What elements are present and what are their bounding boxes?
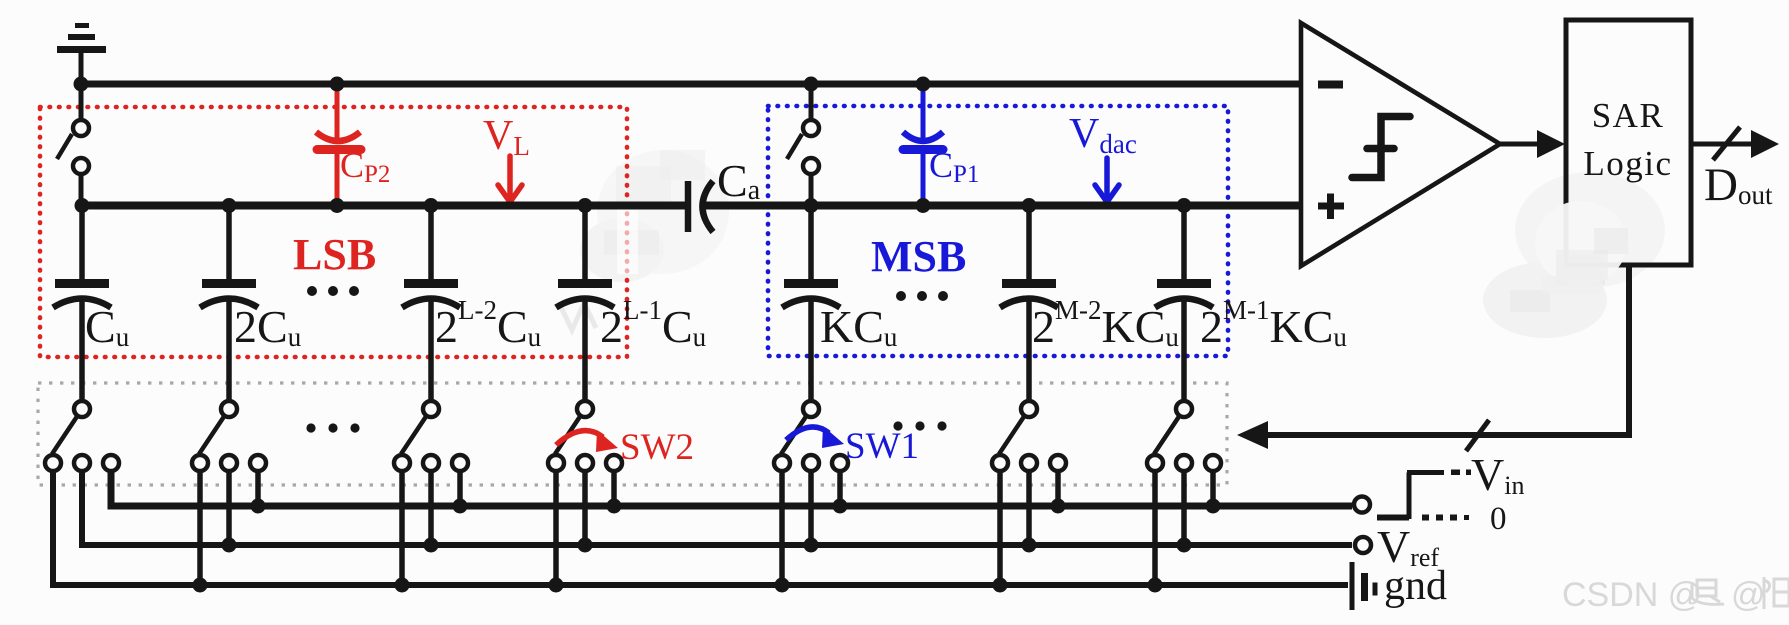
node (Vref rail) [578, 538, 593, 553]
svg-text:SAR: SAR [1592, 96, 1665, 135]
node (CP2 bottom) [330, 198, 345, 213]
wire gnd rail [53, 471, 1348, 585]
wire Dout [1691, 142, 1760, 147]
terminal Vin [1354, 497, 1370, 513]
node (Vref rail) [1177, 538, 1192, 553]
blur artifact (below SAR box) [1483, 172, 1665, 338]
switch SW bottom (2^M-2 KCu) [992, 401, 1066, 585]
svg-text:SW1: SW1 [845, 426, 919, 467]
bus slash (feedback) [1466, 420, 1489, 451]
ellipsis (LSB caps) [307, 286, 359, 296]
node (gnd rail) [1148, 578, 1163, 593]
wire Vref rail [82, 471, 1352, 545]
node (Vref rail) [1022, 538, 1037, 553]
arrow SW1 [786, 427, 829, 440]
capacitor 2^L-2 Cu [402, 206, 460, 402]
node (Vref rail) [222, 538, 237, 553]
node (gnd rail) [549, 578, 564, 593]
svg-text:@: @ [1731, 576, 1766, 614]
arrow Vdac [1095, 158, 1119, 202]
svg-text:SW2: SW2 [620, 427, 694, 468]
capacitor 2Cu [200, 206, 258, 402]
terminal Vref [1355, 537, 1371, 553]
capacitor Ca [688, 181, 713, 232]
node (capacitor 2^M-2 KCu) [1022, 198, 1037, 213]
node (Vref rail) [804, 538, 819, 553]
switch SW bottom (2^M-1 KCu) [1147, 401, 1221, 585]
svg-text:LSB: LSB [293, 230, 376, 279]
ellipsis (MSB switches) [893, 421, 946, 430]
svg-text:Logic: Logic [1583, 144, 1672, 183]
svg-text:gnd: gnd [1384, 563, 1447, 609]
SAR logic box [1566, 20, 1691, 265]
node (gnd rail) [395, 578, 410, 593]
svg-text:2M-1KCu: 2M-1KCu [1200, 295, 1347, 352]
gnd symbol [1352, 562, 1375, 610]
node (capacitor 2Cu) [222, 198, 237, 213]
arrow Dout [1751, 130, 1779, 158]
node (CP1 bottom) [916, 198, 931, 213]
node (Vin rail) [1051, 499, 1066, 514]
capacitor CP2 [316, 84, 361, 206]
capacitor Cu [53, 206, 111, 402]
waveform Vin step [1377, 470, 1471, 521]
ground (top-left) [57, 26, 106, 85]
blur overlay (faded red dots near Ca) [617, 206, 638, 274]
ellipsis (LSB switches) [306, 423, 359, 432]
node (CP2 top) [330, 77, 345, 92]
capacitor CP1 [903, 84, 943, 206]
arrow VL [498, 156, 522, 202]
node (Vin rail) [607, 499, 622, 514]
svg-text:MSB: MSB [871, 232, 966, 281]
node (gnd rail) [193, 578, 208, 593]
node (Vin rail) [453, 499, 468, 514]
blur overlay (SAR box corner) [1535, 201, 1628, 294]
node (capacitor 2^L-1 Cu) [578, 198, 593, 213]
wire Vin rail [111, 471, 1352, 506]
switch SW bottom (2^L-1 Cu) [548, 401, 622, 585]
capacitor 2^M-2 KCu [1000, 206, 1058, 402]
switch SW bottom (Cu) [45, 401, 119, 585]
svg-text:2M-2KCu: 2M-2KCu [1032, 295, 1179, 352]
ellipsis (MSB caps) [896, 291, 948, 301]
arrow (into SAR) [1537, 130, 1565, 158]
capacitor 2^M-1 KCu [1155, 206, 1213, 402]
switch SW bottom (2^L-2 Cu) [394, 401, 468, 585]
node (Vin rail) [1206, 499, 1221, 514]
wire (comparator output) [1500, 142, 1542, 147]
wire (SAR feedback bus) [1252, 265, 1629, 435]
switch (LSB top-plate) [57, 84, 89, 206]
wire (DAC rail MSB side) [700, 202, 1301, 210]
op-amp comparator [1301, 23, 1500, 266]
arrow (feedback) [1237, 421, 1268, 449]
blur artifact (near Ca) [580, 150, 729, 282]
capacitor KCu [782, 206, 840, 402]
switch (MSB top-plate) [787, 84, 819, 206]
node (capacitor 2^M-1 KCu) [1177, 198, 1192, 213]
node (gnd rail) [775, 578, 790, 593]
node (Vin rail) [251, 499, 266, 514]
LSB dotted box [40, 107, 627, 357]
switch-bank dotted box [38, 383, 1227, 485]
capacitor 2^L-1 Cu [556, 206, 614, 402]
arrow SW2 [556, 431, 603, 445]
node (gnd rail) [993, 578, 1008, 593]
wire (top-plate rail to comparator minus) [78, 81, 1301, 88]
node (Vref rail) [424, 538, 439, 553]
watermark glyph (yang) [1764, 577, 1789, 609]
node (capacitor KCu) [804, 198, 819, 213]
wire (DAC rail LSB side) [78, 202, 688, 210]
switch SW bottom (KCu) [774, 401, 848, 585]
node (capacitor Cu) [75, 198, 90, 213]
bus slash (Dout) [1713, 127, 1740, 160]
svg-text:0: 0 [1490, 501, 1507, 537]
node (ground junction) [74, 77, 89, 92]
switch SW bottom (2Cu) [192, 401, 266, 585]
node (Vin rail) [833, 499, 848, 514]
watermark glyph (yi) [1692, 580, 1724, 604]
node (MSB switch top) [804, 77, 819, 92]
svg-text:CSDN @: CSDN @ [1562, 576, 1702, 614]
MSB dotted box [768, 106, 1228, 356]
node (capacitor 2^L-2 Cu) [424, 198, 439, 213]
node (CP1 top) [916, 77, 931, 92]
